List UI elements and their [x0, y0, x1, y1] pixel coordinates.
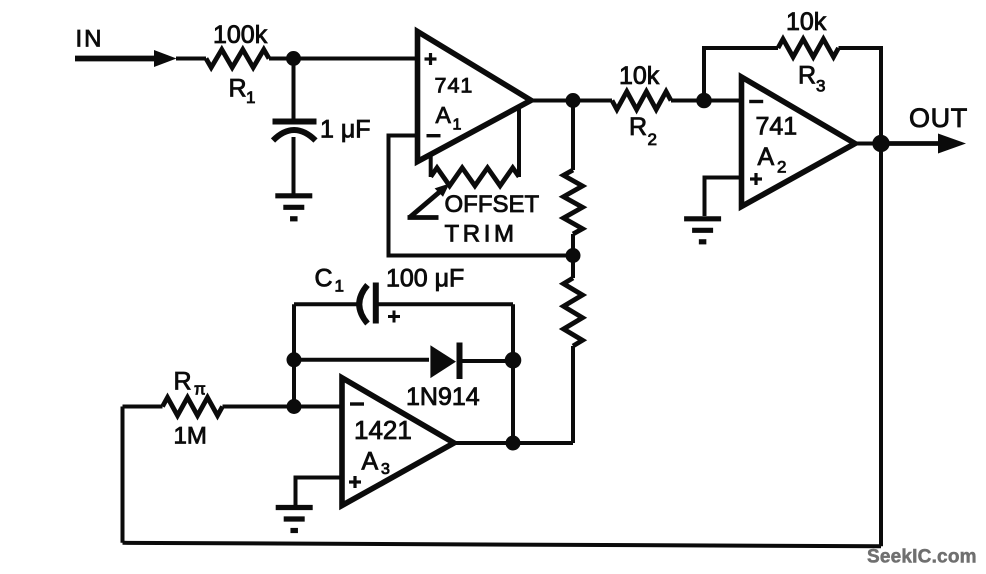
- svg-text:10k: 10k: [619, 62, 660, 90]
- svg-text:1: 1: [453, 117, 462, 134]
- svg-text:R: R: [798, 62, 816, 90]
- svg-text:10k: 10k: [786, 8, 827, 36]
- svg-text:100 μF: 100 μF: [386, 265, 464, 293]
- svg-text:1421: 1421: [354, 415, 412, 445]
- svg-text:3: 3: [816, 77, 825, 96]
- svg-text:C: C: [315, 265, 333, 293]
- svg-text:1M: 1M: [174, 423, 207, 450]
- svg-text:TRIM: TRIM: [445, 221, 518, 248]
- svg-text:R: R: [174, 368, 192, 396]
- svg-text:741: 741: [435, 74, 474, 98]
- svg-text:A: A: [436, 102, 452, 128]
- svg-text:2: 2: [777, 158, 786, 177]
- svg-text:R: R: [229, 75, 247, 103]
- svg-text:A: A: [758, 143, 775, 171]
- svg-text:IN: IN: [76, 26, 104, 53]
- svg-text:R: R: [629, 113, 647, 141]
- svg-text:100k: 100k: [213, 21, 268, 49]
- svg-text:741: 741: [756, 113, 798, 141]
- svg-text:1: 1: [246, 88, 255, 107]
- svg-text:2: 2: [648, 130, 657, 149]
- svg-text:1: 1: [335, 277, 344, 296]
- svg-text:π: π: [194, 380, 206, 399]
- svg-text:1 μF: 1 μF: [320, 116, 371, 144]
- svg-text:3: 3: [381, 461, 390, 478]
- svg-text:A: A: [362, 448, 379, 476]
- svg-text:1N914: 1N914: [406, 383, 480, 411]
- svg-text:OUT: OUT: [909, 103, 968, 133]
- svg-text:OFFSET: OFFSET: [445, 191, 540, 218]
- svg-text:SeekIC.com: SeekIC.com: [867, 547, 977, 568]
